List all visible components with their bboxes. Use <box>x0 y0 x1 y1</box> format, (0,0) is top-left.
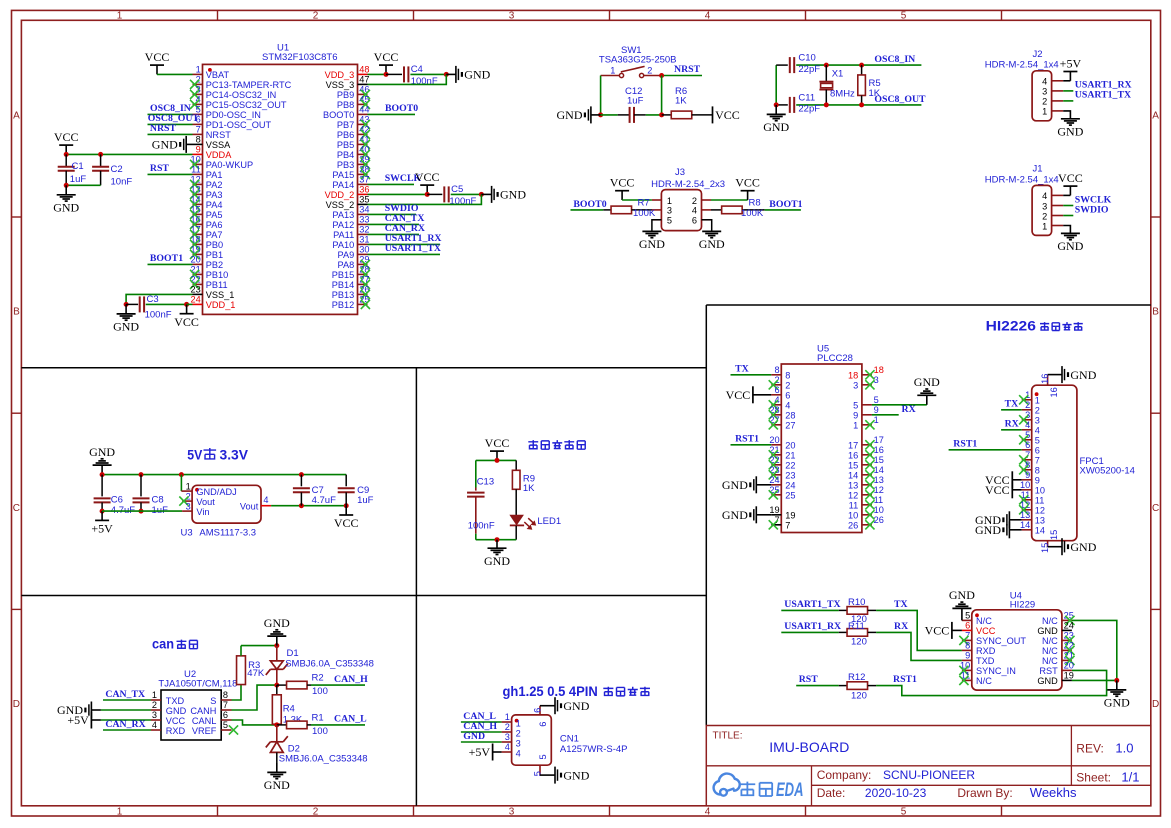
svg-text:1K: 1K <box>675 96 687 107</box>
svg-text:1uF: 1uF <box>627 96 644 107</box>
junction <box>179 472 184 477</box>
svg-text:10: 10 <box>874 505 884 515</box>
svg-text:44: 44 <box>359 105 369 115</box>
svg-text:2020-10-23: 2020-10-23 <box>865 786 927 800</box>
power +5V (J2 pin4) <box>1060 56 1082 80</box>
svg-text:47: 47 <box>359 75 369 85</box>
junction <box>598 112 603 117</box>
svg-text:9: 9 <box>1035 476 1040 486</box>
svg-text:RXD: RXD <box>976 646 996 656</box>
svg-text:TJA1050T/CM,118: TJA1050T/CM,118 <box>158 678 237 689</box>
svg-text:PB13: PB13 <box>332 290 354 300</box>
power VCC (J3 pin2) <box>711 176 760 200</box>
power GND bar (U5 pin19) <box>722 506 771 523</box>
wire <box>66 184 100 186</box>
svg-text:RX: RX <box>1005 419 1019 430</box>
net label GND (CN1 pin3) <box>461 731 502 742</box>
svg-text:100nF: 100nF <box>468 520 495 531</box>
wire U4 pin19 GND <box>1072 679 1117 681</box>
svg-text:VCC: VCC <box>166 716 186 726</box>
svg-text:6: 6 <box>692 216 697 226</box>
svg-text:4: 4 <box>263 495 268 505</box>
connector J3 HDR-M-2.54_2x3 <box>651 167 725 231</box>
svg-text:1: 1 <box>117 10 123 21</box>
svg-text:13: 13 <box>1035 516 1045 526</box>
svg-text:3: 3 <box>509 806 515 817</box>
svg-text:GND: GND <box>166 706 187 716</box>
svg-text:2: 2 <box>505 722 510 732</box>
svg-text:3: 3 <box>505 732 510 742</box>
svg-text:100K: 100K <box>741 208 764 219</box>
power VCC bar (R6) <box>713 106 740 123</box>
svg-text:30: 30 <box>359 245 369 255</box>
svg-text:C3: C3 <box>147 294 159 305</box>
svg-text:RST: RST <box>150 163 170 174</box>
svg-text:GND: GND <box>264 778 290 792</box>
svg-text:3: 3 <box>1035 416 1040 426</box>
svg-text:PB4: PB4 <box>337 150 354 160</box>
capacitor C10 22pF <box>776 53 826 75</box>
svg-text:VREF: VREF <box>192 726 217 736</box>
power GND bar (U1 pin8 VSSA) <box>152 136 193 153</box>
svg-text:27: 27 <box>785 421 795 431</box>
svg-text:HI229: HI229 <box>1010 599 1035 610</box>
ground GND (U4) <box>1104 680 1130 709</box>
resistor R3 47K <box>237 646 265 685</box>
junction <box>64 152 69 157</box>
svg-text:22: 22 <box>785 461 795 471</box>
svg-text:PB11: PB11 <box>206 280 228 290</box>
switch SW1 TSA363G25-250B <box>599 45 677 78</box>
svg-text:21: 21 <box>785 451 795 461</box>
svg-text:PA5: PA5 <box>206 210 223 220</box>
svg-text:CANL: CANL <box>192 716 217 726</box>
svg-text:1: 1 <box>152 690 157 700</box>
svg-text:VSS_3: VSS_3 <box>326 80 355 90</box>
ground GND (J1 pin1) <box>1057 226 1083 254</box>
svg-text:1: 1 <box>186 481 191 491</box>
svg-text:1: 1 <box>516 718 521 728</box>
svg-text:5: 5 <box>538 754 548 759</box>
wire TX to U4 pin8 <box>876 610 962 650</box>
power VCC bar (U4 pin6) <box>925 622 962 639</box>
svg-text:PA2: PA2 <box>206 180 223 190</box>
svg-text:4: 4 <box>505 742 510 752</box>
svg-text:VDDA: VDDA <box>206 150 232 160</box>
svg-text:1: 1 <box>667 196 672 206</box>
svg-text:3: 3 <box>853 381 858 391</box>
svg-text:PA6: PA6 <box>206 220 223 230</box>
net label USART1_TX (U1 pin30) <box>368 243 441 254</box>
svg-text:9: 9 <box>1025 470 1030 480</box>
svg-text:23: 23 <box>190 285 200 295</box>
svg-text:PB5: PB5 <box>337 140 354 150</box>
net label NRST (U1 pin7) <box>148 123 193 134</box>
wire GND rail <box>102 474 346 476</box>
svg-text:can: can <box>152 637 174 652</box>
svg-text:10nF: 10nF <box>111 177 133 188</box>
net label CAN_RX (U2 pin4) <box>103 719 151 730</box>
capacitor C13 100nF <box>467 460 495 539</box>
svg-text:PB9: PB9 <box>337 90 354 100</box>
svg-text:9: 9 <box>965 651 970 661</box>
svg-text:5: 5 <box>901 10 907 21</box>
svg-text:OSC8_IN: OSC8_IN <box>874 54 915 65</box>
svg-text:22pF: 22pF <box>798 103 820 114</box>
net label RST1 (FPC1 pin6) <box>949 439 1022 450</box>
power VCC bar (U5 pin6) <box>726 386 772 403</box>
svg-text:2: 2 <box>1042 211 1047 221</box>
svg-text:9: 9 <box>874 405 879 415</box>
svg-text:TX: TX <box>735 364 749 375</box>
resistor R10 120 <box>839 597 876 625</box>
connector CN1 A1257WR-S-4P <box>502 706 628 777</box>
svg-text:USART1_TX: USART1_TX <box>385 243 441 254</box>
svg-text:Date:: Date: <box>817 786 846 800</box>
svg-text:VCC: VCC <box>1058 171 1083 185</box>
net label CAN_L (CN1 pin1) <box>461 711 502 722</box>
capacitor C12 1uF <box>601 86 662 123</box>
junction <box>124 302 129 307</box>
power VCC (J3 pin1) <box>610 176 652 200</box>
svg-text:20: 20 <box>190 255 200 265</box>
svg-text:1: 1 <box>1035 396 1040 406</box>
svg-text:TXD: TXD <box>166 696 185 706</box>
wire VDD_3 <box>368 73 387 75</box>
svg-text:2: 2 <box>313 10 319 21</box>
svg-text:PB10: PB10 <box>206 270 228 280</box>
wire rail bottom <box>476 539 516 541</box>
svg-text:NRST: NRST <box>150 123 177 134</box>
svg-text:TX: TX <box>894 599 908 610</box>
svg-text:5: 5 <box>1035 436 1040 446</box>
svg-text:100nF: 100nF <box>145 310 172 321</box>
svg-text:SMBJ6.0A_C353348: SMBJ6.0A_C353348 <box>285 658 374 669</box>
svg-text:GND: GND <box>975 523 1001 537</box>
svg-text:14: 14 <box>848 471 858 481</box>
svg-text:+5V: +5V <box>1060 56 1082 70</box>
svg-text:TSA363G25-250B: TSA363G25-250B <box>599 55 677 66</box>
svg-text:N/C: N/C <box>1042 616 1058 626</box>
resistor R11 120 <box>839 621 876 648</box>
net label CAN_H (CN1 pin2) <box>461 721 502 732</box>
svg-text:XW05200-14: XW05200-14 <box>1080 466 1135 477</box>
net label OSC8_IN <box>874 54 915 65</box>
svg-text:25: 25 <box>785 491 795 501</box>
power VCC (U1 pin1) <box>145 50 193 74</box>
svg-text:VSS_2: VSS_2 <box>326 200 355 210</box>
junction <box>859 63 864 68</box>
regulator U3 AMS1117-3.3 <box>179 481 271 538</box>
resistor R4 1.3K <box>272 685 303 725</box>
svg-text:1: 1 <box>1042 107 1047 117</box>
power GND bar (FPC1 pin15) <box>1048 538 1097 555</box>
svg-text:GND: GND <box>464 68 490 82</box>
svg-text:PA8: PA8 <box>338 260 355 270</box>
svg-text:1K: 1K <box>523 483 535 494</box>
svg-text:Sheet:: Sheet: <box>1076 771 1111 785</box>
svg-text:14: 14 <box>1020 520 1030 530</box>
svg-text:+5V: +5V <box>469 745 491 759</box>
wire VSS_3 <box>368 74 447 84</box>
svg-text:PB0: PB0 <box>206 240 223 250</box>
svg-text:CAN_L: CAN_L <box>334 714 367 725</box>
svg-text:VCC: VCC <box>174 315 199 329</box>
svg-text:GND: GND <box>1057 124 1083 138</box>
svg-text:1: 1 <box>853 421 858 431</box>
ground GND (C1) <box>53 185 79 214</box>
svg-text:C6: C6 <box>111 494 123 505</box>
junction <box>139 472 144 477</box>
wire <box>515 489 517 515</box>
svg-text:3: 3 <box>516 738 521 748</box>
svg-text:S: S <box>210 696 216 706</box>
svg-text:A: A <box>13 110 20 121</box>
section title 5V to 3.3V <box>187 448 248 463</box>
power VCC (C9) <box>334 506 359 531</box>
svg-text:13: 13 <box>848 481 858 491</box>
svg-text:17: 17 <box>848 441 858 451</box>
ground GND (CAN top) <box>264 616 290 646</box>
svg-text:RST: RST <box>799 674 819 685</box>
net label CAN_RX (U1 pin32) <box>368 223 425 234</box>
svg-text:PD1-OSC_OUT: PD1-OSC_OUT <box>206 120 272 130</box>
svg-text:BOOT1: BOOT1 <box>150 253 183 264</box>
junction <box>824 102 829 107</box>
junction <box>774 102 779 107</box>
svg-text:13: 13 <box>874 475 884 485</box>
junction <box>344 503 349 508</box>
svg-text:13: 13 <box>1020 510 1030 520</box>
svg-text:R7: R7 <box>638 197 650 208</box>
svg-text:gh1.25 0.5 4PIN: gh1.25 0.5 4PIN <box>503 684 598 699</box>
resistor R6 1K <box>662 86 713 119</box>
svg-text:CAN_H: CAN_H <box>334 674 368 685</box>
power GND bar (C4) <box>446 66 490 83</box>
svg-text:GND: GND <box>463 731 485 742</box>
svg-text:USART1_TX: USART1_TX <box>1075 90 1131 101</box>
junction <box>495 458 500 463</box>
svg-text:6: 6 <box>1035 446 1040 456</box>
net label OSC8_OUT <box>874 94 926 105</box>
svg-text:1uF: 1uF <box>357 495 374 506</box>
resistor R1 100 <box>277 713 328 738</box>
wire <box>241 645 277 647</box>
wire <box>775 65 777 105</box>
section title gh1.25 <box>503 684 650 699</box>
wire VDD_2 <box>368 193 428 195</box>
net label BOOT0 (U1 pin44) <box>368 103 419 114</box>
wire RST1 to U4 pin20 <box>876 670 1107 695</box>
svg-text:2: 2 <box>647 66 652 76</box>
net label USART1_RX (J2) <box>1063 80 1131 91</box>
svg-text:1: 1 <box>610 66 615 76</box>
junction <box>659 112 664 117</box>
svg-text:3: 3 <box>1042 87 1047 97</box>
svg-text:TX: TX <box>1005 399 1019 410</box>
IC U2 TJA1050T/CM,118 <box>151 669 238 740</box>
net label CAN_TX (U1 pin33) <box>368 213 425 224</box>
svg-text:A: A <box>1152 110 1159 121</box>
power VCC (C4) <box>374 50 399 74</box>
svg-text:VCC: VCC <box>334 516 359 530</box>
connector FPC1 XW05200-14 <box>1019 374 1135 553</box>
svg-text:N/C: N/C <box>1042 646 1058 656</box>
svg-text:D: D <box>13 699 20 710</box>
svg-text:4: 4 <box>1042 77 1047 87</box>
net label TX (U5 pin8) <box>731 364 772 375</box>
svg-text:BOOT1: BOOT1 <box>769 199 802 210</box>
svg-text:37: 37 <box>359 175 369 185</box>
svg-text:+5V: +5V <box>91 522 113 536</box>
resistor R12 120 <box>839 672 876 701</box>
svg-text:HDR-M-2.54_2x3: HDR-M-2.54_2x3 <box>651 179 725 190</box>
svg-text:11: 11 <box>191 165 201 175</box>
svg-text:VCC: VCC <box>985 483 1010 497</box>
svg-text:A1257WR-S-4P: A1257WR-S-4P <box>560 744 628 755</box>
resistor R7 100K <box>603 197 656 219</box>
wire <box>345 475 347 487</box>
power VCC bar (FPC1 pin10) <box>985 481 1022 498</box>
svg-text:USART1_RX: USART1_RX <box>784 621 841 632</box>
svg-text:J1: J1 <box>1033 164 1043 175</box>
svg-text:GND: GND <box>763 120 789 134</box>
svg-text:PA9: PA9 <box>338 250 355 260</box>
svg-text:17: 17 <box>874 435 884 445</box>
ground GND (CAN bottom) <box>264 763 290 792</box>
svg-text:RST1: RST1 <box>893 674 917 685</box>
svg-text:2: 2 <box>1025 400 1030 410</box>
svg-text:3: 3 <box>186 501 191 511</box>
svg-text:3: 3 <box>152 710 157 720</box>
svg-text:RX: RX <box>894 621 908 632</box>
svg-text:N/C: N/C <box>1042 656 1058 666</box>
svg-text:31: 31 <box>359 235 369 245</box>
junction <box>274 643 279 648</box>
ground GND (U5 pin5) <box>914 375 940 405</box>
svg-text:15: 15 <box>1040 543 1050 553</box>
svg-text:32: 32 <box>359 225 369 235</box>
svg-text:GND: GND <box>1037 676 1058 686</box>
net label TX (R10) <box>894 599 908 610</box>
capacitor C5 100nF <box>427 184 481 207</box>
ground GND (C3) <box>113 304 139 333</box>
svg-text:GND/ADJ: GND/ADJ <box>196 487 236 497</box>
net label RST1 (U5 pin20) <box>731 434 772 445</box>
svg-text:VCC: VCC <box>735 176 760 190</box>
svg-text:PA14: PA14 <box>332 180 354 190</box>
svg-text:4.7uF: 4.7uF <box>312 495 336 506</box>
net label OSC8_OUT (U1 pin6) <box>148 113 200 124</box>
svg-text:2: 2 <box>1035 406 1040 416</box>
svg-text:12: 12 <box>1035 506 1045 516</box>
junction <box>100 509 105 514</box>
svg-text:20: 20 <box>785 441 795 451</box>
svg-text:2: 2 <box>516 728 521 738</box>
svg-text:4: 4 <box>152 720 157 730</box>
svg-text:3: 3 <box>509 10 515 21</box>
net label RST1 (R12) <box>893 674 917 685</box>
svg-text:3.3V: 3.3V <box>220 448 249 463</box>
svg-text:48: 48 <box>359 65 369 75</box>
svg-text:9: 9 <box>196 145 201 155</box>
svg-text:1: 1 <box>1042 221 1047 231</box>
junction <box>299 472 304 477</box>
svg-text:USART1_TX: USART1_TX <box>784 599 840 610</box>
svg-text:16: 16 <box>848 451 858 461</box>
diode D1 SMBJ6.0A_C353348 <box>266 646 374 686</box>
ground GND (J3 pin5) <box>639 220 665 251</box>
svg-text:3: 3 <box>1042 201 1047 211</box>
svg-text:Vin: Vin <box>196 507 209 517</box>
capacitor C11 22pF <box>776 92 826 114</box>
svg-text:1: 1 <box>505 712 510 722</box>
svg-text:TXD: TXD <box>976 656 995 666</box>
svg-text:8: 8 <box>774 365 779 375</box>
svg-text:X1: X1 <box>832 69 844 80</box>
svg-text:N/C: N/C <box>976 676 992 686</box>
wire VSS_2 <box>368 194 482 204</box>
net label BOOT1 (R8) <box>765 199 803 210</box>
svg-text:15: 15 <box>848 461 858 471</box>
IC U1 STM32F103C8T6 <box>190 43 370 315</box>
svg-text:1: 1 <box>196 65 201 75</box>
svg-text:GND: GND <box>1104 696 1130 710</box>
svg-text:VDD_3: VDD_3 <box>325 70 355 80</box>
svg-text:8MHz: 8MHz <box>830 89 855 100</box>
ground GND (crystal) <box>763 105 789 134</box>
svg-text:D: D <box>1152 699 1159 710</box>
svg-text:34: 34 <box>359 205 369 215</box>
junction <box>384 72 389 77</box>
svg-text:VCC: VCC <box>415 170 440 184</box>
ground GND (5V33 rail) <box>89 445 115 475</box>
svg-text:GND: GND <box>563 699 589 713</box>
svg-text:18: 18 <box>848 371 858 381</box>
svg-text:120: 120 <box>851 690 867 701</box>
svg-text:4: 4 <box>1042 191 1047 201</box>
svg-text:J2: J2 <box>1033 49 1043 60</box>
svg-text:Drawn By:: Drawn By: <box>957 786 1012 800</box>
svg-text:SCNU-PIONEER: SCNU-PIONEER <box>883 768 975 782</box>
svg-text:VCC: VCC <box>610 176 635 190</box>
ground GND (LED block) <box>484 540 510 568</box>
junction <box>139 509 144 514</box>
svg-text:2: 2 <box>313 806 319 817</box>
power GND bar (CN1 pin5) <box>540 767 590 784</box>
capacitor C1 1uF <box>58 154 87 185</box>
svg-text:B: B <box>13 307 20 318</box>
svg-text:8: 8 <box>196 135 201 145</box>
svg-text:BOOT0: BOOT0 <box>573 199 606 210</box>
wire U2 pin8 to R3 <box>232 685 242 701</box>
wire VDDA rail <box>66 153 192 155</box>
svg-text:4: 4 <box>516 748 521 758</box>
junction <box>824 63 829 68</box>
svg-text:GND: GND <box>89 445 115 459</box>
svg-text:4: 4 <box>1025 420 1030 430</box>
svg-text:24: 24 <box>1064 621 1074 631</box>
svg-text:8: 8 <box>965 641 970 651</box>
svg-text:Vout: Vout <box>196 497 215 507</box>
svg-text:GND: GND <box>557 108 583 122</box>
svg-text:R12: R12 <box>848 672 865 683</box>
net label BOOT1 (U1 pin20) <box>148 253 193 264</box>
section title can comm <box>152 637 197 652</box>
LED LED1 <box>510 515 561 530</box>
svg-text:VCC: VCC <box>374 50 399 64</box>
capacitor C2 10nF <box>92 154 132 187</box>
